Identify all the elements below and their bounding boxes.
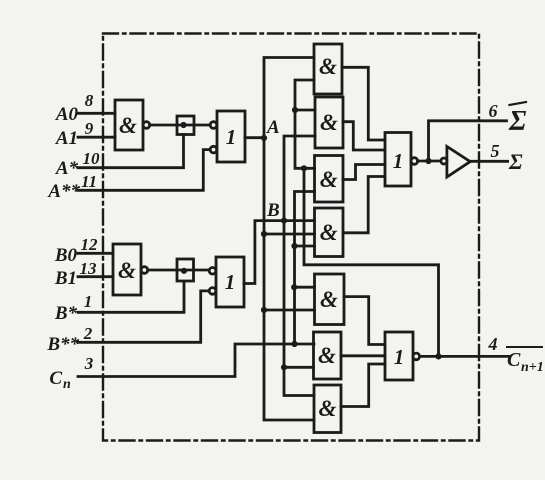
wire U2 output to node A — [245, 136, 264, 139]
svg-text:&: & — [319, 54, 337, 79]
svg-text:&: & — [118, 258, 136, 283]
svg-text:12: 12 — [81, 235, 99, 254]
svg-text:&: & — [119, 113, 137, 138]
svg-text:A: A — [266, 117, 280, 138]
svg-text:B0: B0 — [54, 245, 78, 266]
output pin 4 wire — [420, 355, 509, 358]
wire U3 out to U4 — [148, 269, 210, 272]
input A* pin 10 — [78, 135, 184, 168]
AND gate U3 (B0,B1) — [113, 244, 141, 295]
IC boundary dash-dot frame — [103, 34, 479, 441]
wire U5 out to U11 — [342, 67, 385, 140]
svg-text:&: & — [318, 343, 336, 368]
wired-AND square S1 — [177, 116, 194, 135]
wired-AND square S2 — [177, 259, 194, 281]
svg-text:13: 13 — [80, 259, 98, 278]
svg-text:10: 10 — [83, 149, 101, 168]
OR gate U11 — [385, 133, 411, 187]
U2 input bubble 2 — [210, 146, 217, 153]
AND gate U1 (A0,A1) — [115, 100, 143, 150]
junction Cn/U8 — [291, 243, 297, 249]
svg-text:A1: A1 — [55, 128, 78, 149]
svg-text:&: & — [320, 287, 338, 312]
wire U4 output to node B line — [244, 221, 315, 284]
svg-text:6: 6 — [489, 101, 498, 121]
input A0 pin 8 — [78, 112, 115, 115]
carry feedback bus lower — [304, 168, 439, 356]
wire B to U10 — [284, 366, 314, 369]
junction node A — [261, 135, 267, 141]
input B* pin 1 — [78, 282, 184, 313]
svg-text:B**: B** — [46, 334, 79, 355]
U4 input bubble 2 — [209, 288, 216, 295]
AND gate U7 — [315, 156, 344, 203]
output pin 5 wire — [470, 160, 507, 163]
overbar of Cn+1 — [507, 346, 542, 348]
U4 input bubble 1 — [209, 268, 216, 275]
svg-text:C: C — [507, 349, 521, 371]
wire U6 out to U11 — [343, 122, 385, 150]
input A1 pin 9 — [78, 136, 115, 139]
svg-text:A0: A0 — [55, 104, 79, 125]
svg-text:B1: B1 — [54, 268, 77, 289]
node A vertical bus — [264, 58, 314, 421]
junction node B — [281, 218, 287, 224]
OR gate U4 — [216, 257, 244, 307]
junction A/U8 — [261, 231, 267, 237]
svg-text:A*: A* — [55, 158, 79, 179]
input A** pin 11 — [78, 150, 210, 191]
svg-text:5: 5 — [491, 141, 500, 161]
svg-text:&: & — [320, 110, 338, 135]
junction in S1 — [180, 122, 186, 128]
AND gate U8 — [315, 208, 344, 257]
svg-text:Σ: Σ — [508, 106, 527, 137]
wire feedback to U6 — [295, 109, 315, 112]
inverter U12 triangle — [447, 146, 470, 177]
wire U9 out to U14 — [344, 297, 385, 345]
wire A to U9 — [264, 309, 315, 312]
input Cn pin 3 — [78, 344, 314, 377]
wire U13 out to U14 — [341, 364, 385, 407]
input B0 pin 12 — [78, 252, 113, 255]
junction sigma — [425, 158, 431, 164]
junction Cn/U10 — [291, 341, 297, 347]
svg-text:&: & — [319, 396, 337, 421]
wire Cn to U8 — [295, 245, 315, 248]
input B1 pin 13 — [78, 275, 113, 278]
svg-text:3: 3 — [84, 354, 94, 373]
svg-text:1: 1 — [393, 149, 404, 173]
output pin 6 wire — [429, 121, 507, 161]
svg-text:4: 4 — [488, 334, 498, 354]
svg-text:Σ: Σ — [508, 149, 523, 174]
svg-text:&: & — [320, 167, 338, 192]
OR gate U14 — [385, 332, 413, 380]
junction Cn/U9 — [291, 284, 297, 290]
OR gate U2 — [217, 111, 245, 162]
node B vertical bus — [284, 136, 315, 396]
overbar of sigma-bar — [510, 102, 527, 105]
wire U1 out to U2 — [150, 124, 210, 127]
svg-text:1: 1 — [225, 270, 236, 294]
U3 output inversion bubble — [141, 267, 148, 274]
wire U11 out to junction — [418, 160, 441, 163]
svg-text:B: B — [266, 200, 280, 221]
junction in S2 — [181, 268, 187, 274]
U2 input bubble 1 — [210, 122, 217, 129]
Cn vertical bus — [295, 192, 315, 345]
AND gate U9 — [315, 274, 345, 325]
input B** pin 2 — [78, 291, 210, 342]
U14 output bubble — [413, 353, 420, 360]
junction A/U9 — [261, 307, 267, 313]
wire U10 out to U14 — [341, 354, 385, 357]
junction feedback/U7 — [301, 165, 307, 171]
svg-text:&: & — [320, 220, 338, 245]
AND gate U5 — [314, 44, 342, 94]
AND gate U6 — [315, 97, 343, 148]
svg-text:1: 1 — [394, 345, 405, 369]
svg-text:11: 11 — [81, 172, 97, 191]
inverter U12 input bubble — [441, 158, 447, 164]
AND gate U10 — [314, 332, 342, 379]
junction carry out — [435, 353, 441, 359]
wire U8 out to U11 — [343, 177, 385, 233]
svg-text:1: 1 — [226, 125, 237, 149]
AND gate U13 — [314, 385, 341, 433]
wire U7 out to U11 — [343, 165, 385, 180]
svg-text:n+1: n+1 — [521, 360, 544, 375]
U11 output bubble — [411, 158, 418, 165]
junction B/U10 — [281, 364, 287, 370]
svg-text:9: 9 — [85, 119, 94, 138]
svg-text:A**: A** — [47, 181, 80, 202]
carry feedback bus upper — [295, 80, 315, 168]
junction feedback/U6 — [292, 107, 298, 113]
svg-text:8: 8 — [85, 91, 94, 110]
wire A to U8 — [264, 233, 315, 236]
wire Cn to U9 — [294, 286, 314, 289]
svg-text:п: п — [63, 377, 71, 392]
svg-text:1: 1 — [84, 292, 93, 311]
svg-text:B*: B* — [54, 303, 78, 324]
svg-text:2: 2 — [83, 324, 93, 343]
svg-text:C: C — [49, 368, 62, 389]
U1 output inversion bubble — [143, 122, 150, 129]
